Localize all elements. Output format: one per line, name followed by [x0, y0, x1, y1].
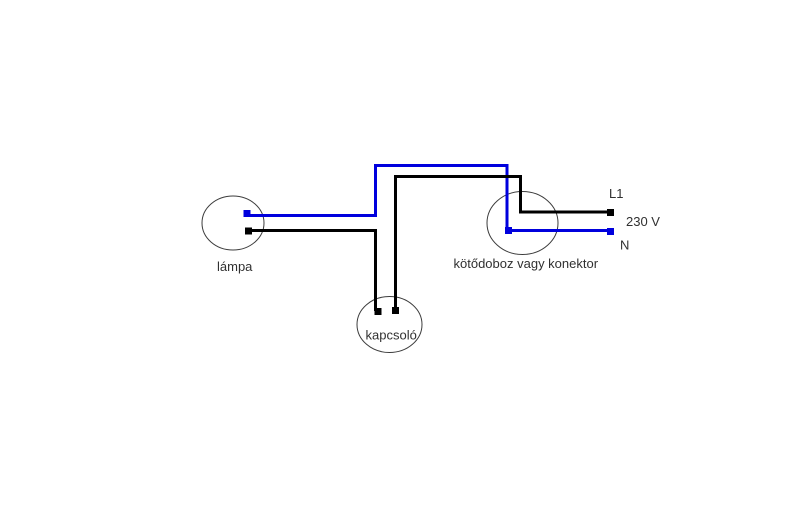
switch outline (kapcsoló) — [357, 297, 422, 353]
wire: black lamp to switch run (horizontal) — [245, 229, 377, 232]
wire: black drop to switch left terminal (vertical) — [374, 229, 377, 311]
terminal: switch right — [392, 307, 399, 314]
lamp outline (lámpa) — [202, 196, 264, 250]
wire: black drop beside junction box (vertical) — [519, 175, 522, 214]
svg-text:lámpa: lámpa — [217, 259, 253, 274]
wire: black run to L1 terminal (horizontal) — [519, 211, 611, 214]
terminal: junction box blue (neutral node) — [505, 227, 512, 234]
wire: blue neutral, lamp terminal to riser corner (horizontal) — [244, 214, 377, 217]
svg-text:N: N — [620, 238, 629, 253]
terminal: switch left — [375, 308, 382, 315]
svg-text:L1: L1 — [609, 186, 623, 201]
wire: blue neutral drop into junction box (vertical) — [506, 164, 509, 232]
wire: blue neutral top run (horizontal) — [374, 164, 509, 167]
terminal: lamp black (switched live) — [245, 228, 252, 235]
wire: black switch right terminal riser (vertical) — [394, 175, 397, 311]
terminal: lamp blue (neutral) — [244, 210, 251, 217]
wire: blue neutral junction box to N terminal (horizontal) — [505, 229, 611, 232]
svg-text:kapcsoló: kapcsoló — [366, 328, 417, 343]
terminal: L1 supply — [607, 209, 614, 216]
svg-text:kötődoboz vagy konektor: kötődoboz vagy konektor — [454, 256, 599, 271]
terminal: N supply — [607, 228, 614, 235]
wire: black top run toward L1 (horizontal) — [394, 175, 522, 178]
junction box outline (kötődoboz) — [487, 192, 558, 255]
wire: blue neutral riser up (vertical) — [374, 164, 377, 217]
svg-text:230 V: 230 V — [626, 214, 660, 229]
